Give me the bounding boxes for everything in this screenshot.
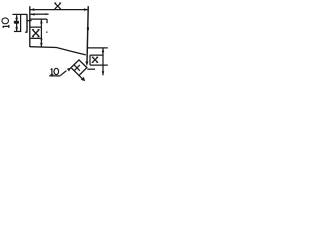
node label X top bbox=[55, 3, 61, 9]
wire leader 10 bbox=[60, 71, 66, 76]
wire dim line mid vertical bbox=[40, 19, 42, 47]
wire tab right side bbox=[26, 14, 28, 32]
wire dim line right vertical bbox=[102, 48, 104, 75]
node label 10 left (rotated) bbox=[2, 18, 9, 28]
wire extension 10 bottom bbox=[14, 30, 21, 32]
wire box right bottom extension bbox=[90, 64, 108, 66]
wire dim 45 lower bbox=[79, 76, 83, 79]
wire dim line 10 left bbox=[16, 15, 18, 31]
node diamond box bbox=[71, 60, 87, 76]
wire box left top bbox=[30, 26, 42, 28]
wire part top edge bbox=[30, 18, 47, 20]
node label X box right bbox=[92, 57, 97, 62]
arrowhead dim 45 lower bbox=[81, 77, 85, 81]
wire stub right bbox=[87, 68, 95, 70]
wire dim line 2 bbox=[30, 13, 48, 15]
wire extension right top bbox=[87, 47, 107, 49]
wire box left bottom bbox=[30, 37, 42, 39]
blob extension kink bbox=[87, 27, 89, 31]
wire part bottom edge bbox=[30, 47, 86, 55]
arrowheads top dim bbox=[30, 8, 34, 11]
arrowhead leader bbox=[67, 68, 72, 72]
arrowhead right edge end bbox=[85, 62, 88, 67]
arrowheads right dim bbox=[102, 48, 105, 52]
node label x diamond bbox=[74, 65, 80, 71]
wire underline 10 bbox=[49, 75, 60, 77]
blob junction box-left bbox=[41, 38, 43, 41]
wire extension left bbox=[29, 6, 31, 47]
wire box right left bbox=[89, 55, 91, 65]
wire tab left side bbox=[20, 14, 22, 31]
wire step edge bbox=[46, 19, 48, 23]
node label X box left bbox=[33, 30, 39, 37]
node label 10 bottom bbox=[50, 68, 53, 74]
wire step edge dash bbox=[46, 32, 48, 33]
wire box right top bbox=[90, 54, 103, 56]
wire stub top left bbox=[27, 20, 32, 22]
wire tab bottom stub bbox=[25, 31, 28, 33]
wire dim line top bbox=[30, 9, 89, 11]
wire extension right bbox=[87, 6, 88, 62]
wire tab top bbox=[12, 13, 27, 15]
arrowheads 10 left bbox=[15, 15, 18, 19]
arrowheads mid dim bbox=[40, 19, 43, 23]
